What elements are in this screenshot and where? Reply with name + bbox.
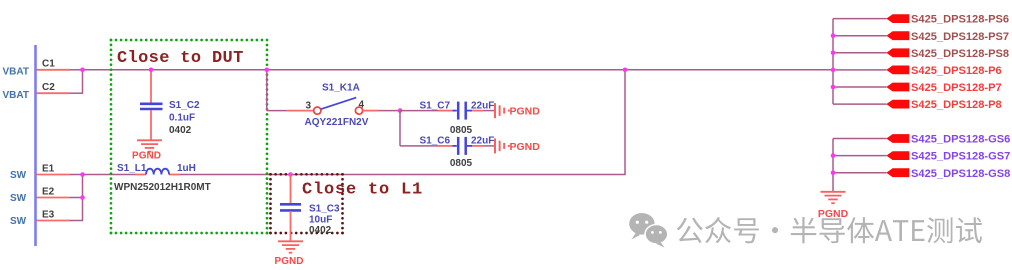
- svg-text:VBAT: VBAT: [3, 67, 29, 78]
- svg-text:S1_L1: S1_L1: [117, 163, 147, 174]
- svg-text:SW: SW: [10, 170, 27, 181]
- svg-text:PGND: PGND: [510, 106, 541, 118]
- svg-text:S1_K1A: S1_K1A: [322, 83, 360, 94]
- svg-text:3: 3: [306, 101, 312, 112]
- svg-text:SW: SW: [10, 216, 27, 227]
- svg-text:22uF: 22uF: [471, 136, 494, 147]
- svg-text:0805: 0805: [450, 125, 473, 136]
- svg-text:SW: SW: [10, 193, 27, 204]
- svg-text:C1: C1: [42, 59, 55, 70]
- svg-text:S425_DPS128-PS6: S425_DPS128-PS6: [911, 14, 1009, 26]
- svg-text:PGND: PGND: [132, 150, 161, 161]
- svg-text:S1_C3: S1_C3: [309, 203, 340, 214]
- svg-text:E1: E1: [42, 163, 55, 174]
- svg-text:4: 4: [359, 100, 365, 111]
- svg-text:PGND: PGND: [510, 141, 541, 153]
- svg-text:Close to DUT: Close to DUT: [117, 49, 244, 68]
- svg-text:S425_DPS128-PS7: S425_DPS128-PS7: [911, 31, 1009, 43]
- svg-text:S425_DPS128-GS8: S425_DPS128-GS8: [911, 168, 1010, 180]
- svg-text:VBAT: VBAT: [3, 90, 29, 101]
- svg-text:0402: 0402: [309, 225, 332, 236]
- svg-text:S1_C7: S1_C7: [420, 100, 451, 111]
- svg-text:E2: E2: [42, 186, 55, 197]
- svg-text:0402: 0402: [169, 125, 192, 136]
- svg-text:S425_DPS128-P8: S425_DPS128-P8: [911, 99, 1002, 111]
- svg-text:AQY221FN2V: AQY221FN2V: [305, 117, 369, 128]
- svg-text:S425_DPS128-GS7: S425_DPS128-GS7: [911, 151, 1010, 163]
- svg-text:E3: E3: [42, 209, 55, 220]
- svg-text:0805: 0805: [450, 158, 473, 169]
- svg-text:C2: C2: [42, 82, 55, 93]
- svg-text:S425_DPS128-PS8: S425_DPS128-PS8: [911, 48, 1009, 60]
- svg-text:Close to L1: Close to L1: [302, 181, 423, 200]
- svg-text:PGND: PGND: [818, 208, 849, 220]
- svg-text:0.1uF: 0.1uF: [169, 113, 195, 124]
- svg-text:S1_C6: S1_C6: [420, 136, 451, 147]
- svg-text:22uF: 22uF: [471, 100, 494, 111]
- svg-text:S1_C2: S1_C2: [169, 100, 200, 111]
- svg-text:S425_DPS128-GS6: S425_DPS128-GS6: [911, 134, 1010, 146]
- svg-text:1uH: 1uH: [177, 163, 196, 174]
- svg-text:S425_DPS128-P7: S425_DPS128-P7: [911, 82, 1002, 94]
- svg-text:PGND: PGND: [275, 256, 304, 267]
- svg-text:S425_DPS128-P6: S425_DPS128-P6: [911, 65, 1002, 77]
- svg-text:WPN252012H1R0MT: WPN252012H1R0MT: [114, 182, 211, 193]
